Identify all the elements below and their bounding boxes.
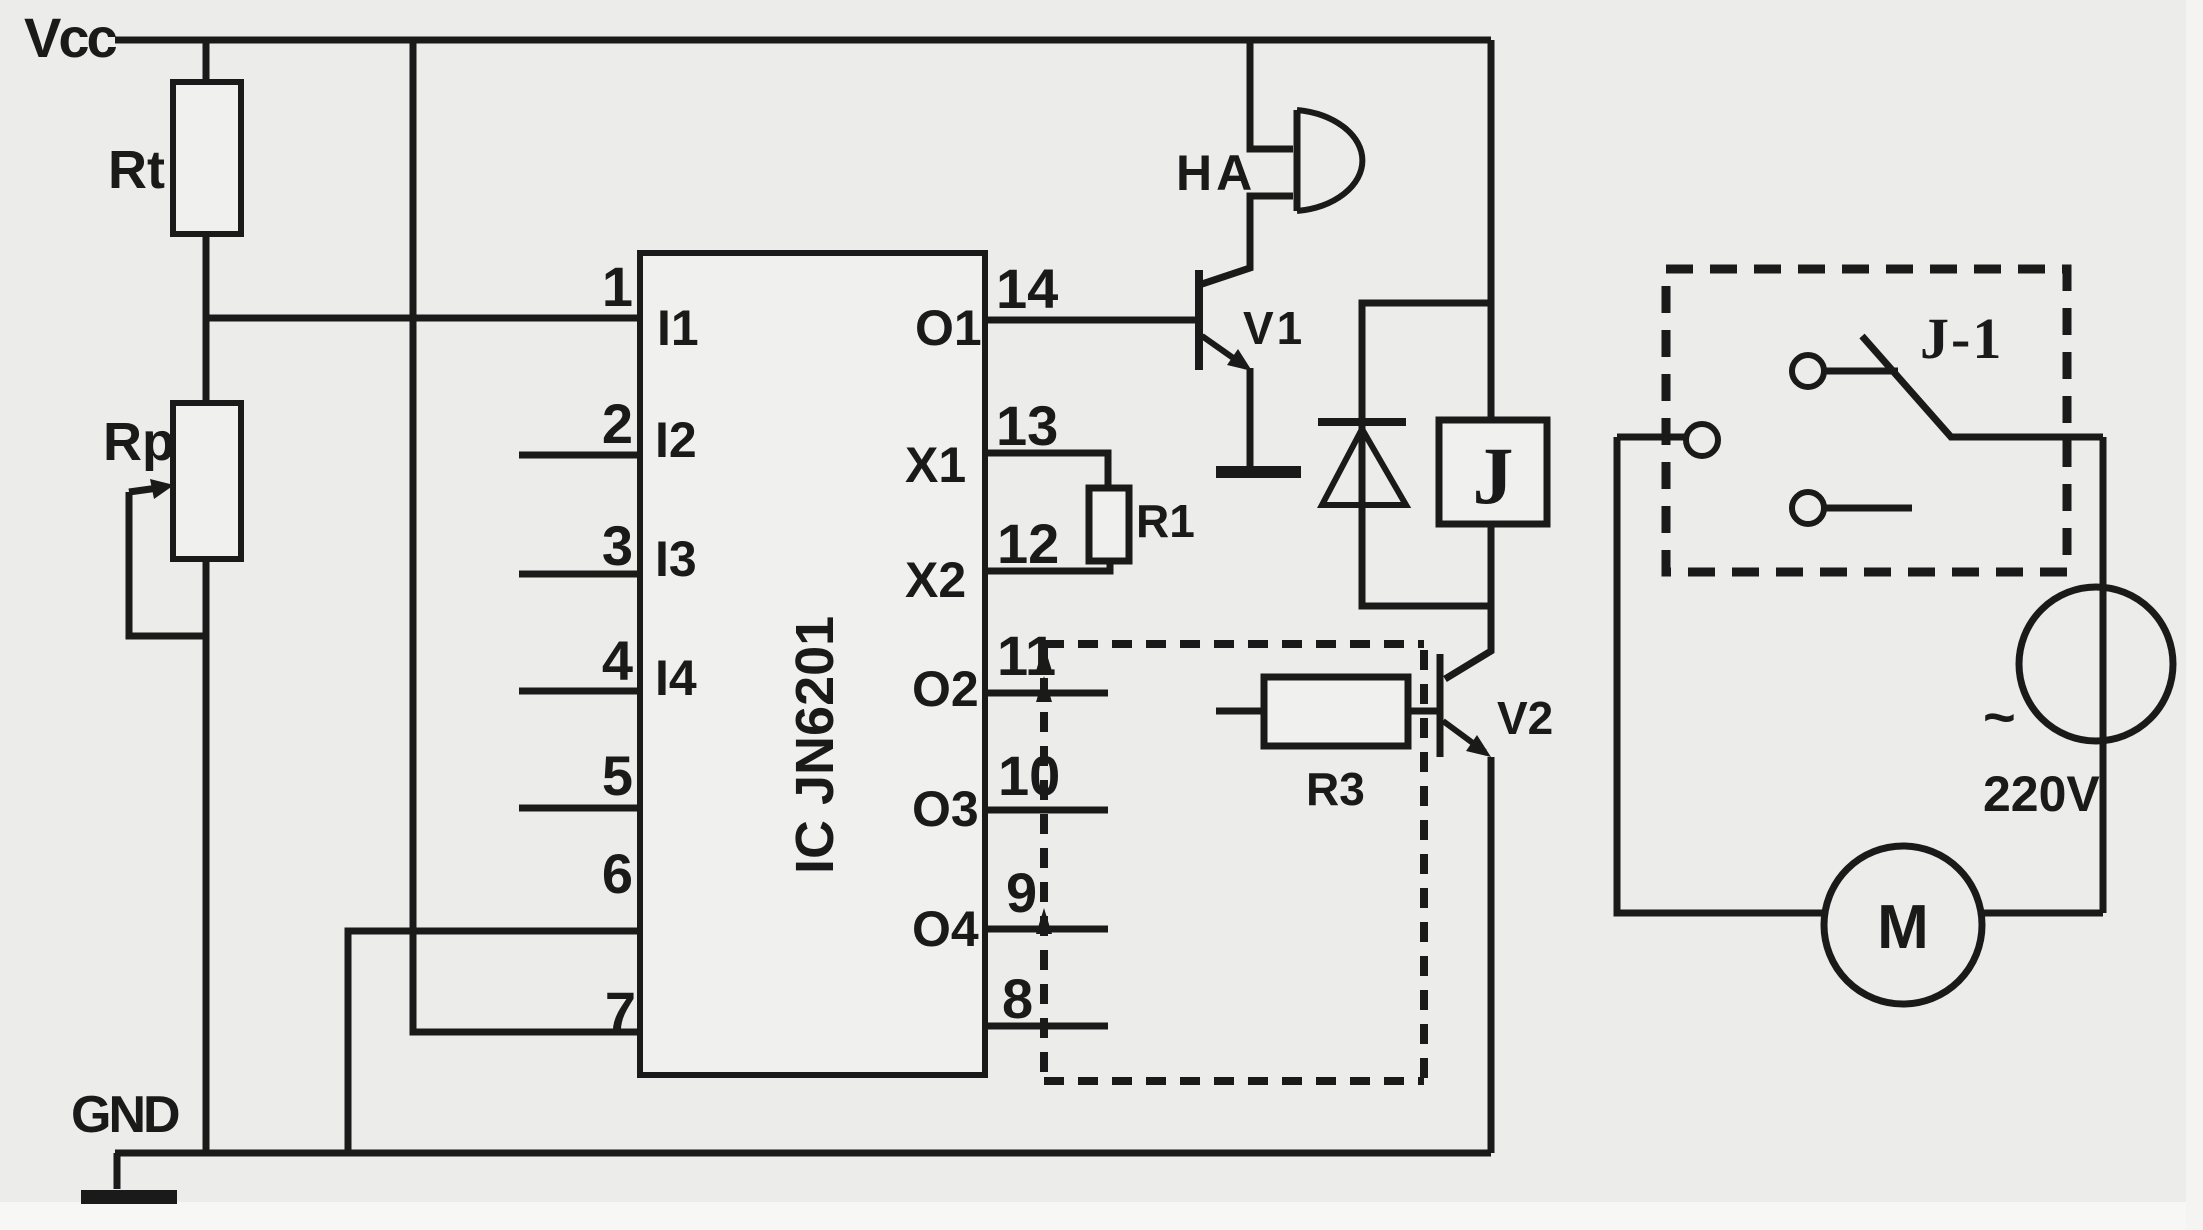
svg-text:X2: X2: [905, 552, 966, 608]
svg-text:~: ~: [1983, 685, 2016, 748]
svg-text:I3: I3: [655, 531, 697, 587]
svg-text:V1: V1: [1243, 302, 1305, 354]
svg-text:2: 2: [602, 392, 633, 455]
svg-text:J: J: [1473, 430, 1514, 521]
svg-text:I2: I2: [655, 412, 697, 468]
svg-text:10: 10: [998, 744, 1060, 807]
svg-text:X1: X1: [905, 437, 966, 493]
svg-text:R1: R1: [1136, 495, 1195, 547]
svg-text:3: 3: [602, 514, 633, 577]
svg-text:9: 9: [1006, 861, 1037, 924]
svg-text:11: 11: [997, 624, 1056, 687]
svg-text:J-1: J-1: [1920, 306, 2003, 371]
svg-text:Rt: Rt: [108, 140, 165, 200]
svg-text:7: 7: [605, 980, 636, 1043]
svg-text:6: 6: [602, 842, 633, 905]
svg-text:4: 4: [602, 629, 633, 692]
svg-text:8: 8: [1002, 967, 1033, 1030]
svg-text:O2: O2: [912, 661, 979, 717]
svg-text:5: 5: [602, 744, 633, 807]
svg-text:V2: V2: [1497, 692, 1553, 744]
svg-text:I1: I1: [657, 300, 699, 356]
svg-text:220V: 220V: [1983, 766, 2100, 822]
svg-text:HA: HA: [1176, 145, 1256, 201]
svg-text:14: 14: [996, 257, 1058, 320]
svg-text:O1: O1: [915, 300, 982, 356]
svg-text:1: 1: [602, 255, 633, 318]
svg-text:O3: O3: [912, 781, 979, 837]
svg-text:O4: O4: [912, 901, 979, 957]
svg-text:Vcc: Vcc: [24, 6, 116, 69]
svg-text:Rp: Rp: [103, 412, 175, 472]
svg-text:12: 12: [997, 512, 1059, 575]
svg-text:13: 13: [996, 394, 1058, 457]
svg-text:I4: I4: [655, 650, 697, 706]
svg-text:R3: R3: [1306, 763, 1365, 815]
svg-text:IC JN6201: IC JN6201: [785, 616, 845, 874]
svg-text:M: M: [1877, 893, 1929, 962]
svg-text:GND: GND: [71, 1086, 179, 1144]
